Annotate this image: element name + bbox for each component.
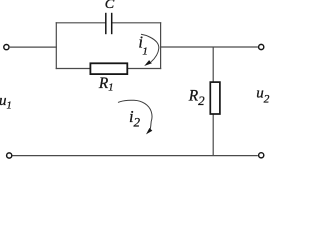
- svg-text:2: 2: [264, 93, 270, 105]
- svg-text:2: 2: [134, 115, 141, 130]
- svg-text:2: 2: [198, 93, 205, 108]
- svg-text:u: u: [256, 86, 264, 102]
- svg-text:C: C: [105, 0, 115, 11]
- svg-text:1: 1: [7, 101, 12, 112]
- svg-text:1: 1: [108, 83, 113, 94]
- svg-text:1: 1: [142, 46, 148, 58]
